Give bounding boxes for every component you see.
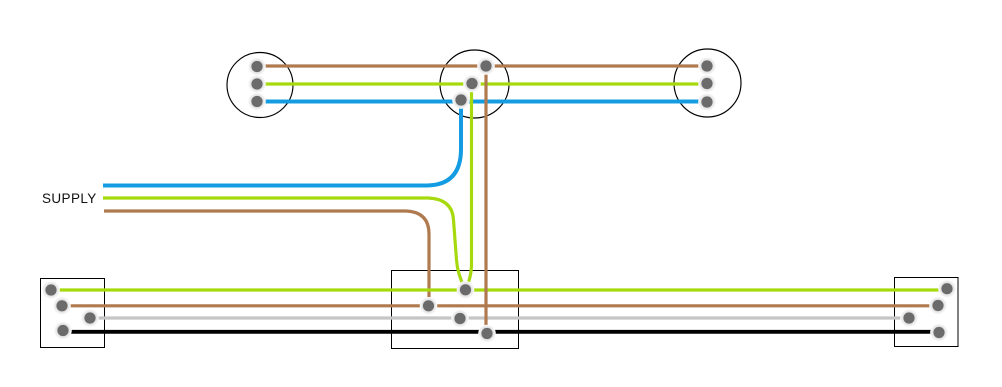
wire green bottom horizontal	[51, 288, 941, 291]
ceiling rose / junction circle left	[227, 53, 293, 118]
wire green vertical from middle circle down to middle box	[466, 84, 472, 289]
switch box left	[41, 279, 105, 348]
ceiling rose / junction circle right	[674, 49, 741, 117]
terminal dots middle circle	[452, 57, 495, 109]
terminal dots right box	[900, 280, 956, 341]
wire grey bottom horizontal	[90, 316, 909, 319]
svg-text:SUPPLY: SUPPLY	[42, 191, 97, 206]
wire blue top horizontal	[264, 100, 701, 104]
wire blue vertical + supply run	[103, 100, 461, 186]
ceiling rose / junction circle middle	[440, 50, 509, 118]
wire brown supply run bending down into middle box	[104, 211, 429, 305]
terminal dots left box	[42, 281, 99, 339]
switch box right	[895, 278, 959, 347]
terminal dots middle box	[420, 281, 496, 342]
wire brown top horizontal	[264, 64, 699, 67]
switch box middle	[392, 271, 519, 349]
wire brown vertical from middle circle down to black line	[484, 66, 487, 333]
wire black bottom horizontal	[63, 330, 939, 334]
wire green top horizontal	[264, 82, 700, 85]
terminal dots right circle	[698, 57, 716, 111]
terminal dots left circle	[248, 58, 266, 111]
wire brown bottom horizontal	[62, 304, 938, 307]
wire green supply run with S-bend down to middle box	[103, 198, 465, 289]
